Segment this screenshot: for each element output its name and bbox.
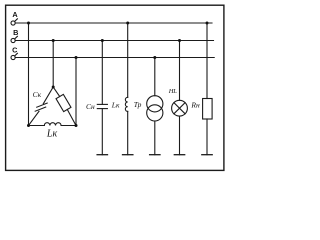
- wire lamp HL to bottom bar: [179, 116, 181, 155]
- junction dot A-x207: [206, 22, 209, 25]
- lamp HL cross stroke 2: [174, 103, 185, 114]
- junction dot C-x154.8: [153, 56, 156, 59]
- delta left side upper wire: [43, 87, 53, 104]
- delta bottom wire left: [29, 125, 45, 127]
- wire C to transformer Tr: [154, 58, 156, 96]
- wire C to delta right corner: [75, 58, 77, 126]
- svg-text:Cн: Cн: [86, 102, 95, 111]
- bottom terminal bar of Lk2 branch: [123, 154, 133, 156]
- svg-text:C: C: [12, 46, 18, 55]
- svg-text:A: A: [12, 10, 18, 19]
- svg-text:Cк: Cк: [33, 90, 42, 99]
- junction dot B-x53.2: [52, 39, 55, 42]
- wire B to capacitor Cn: [101, 41, 103, 105]
- delta bottom wire right: [61, 125, 76, 127]
- svg-text:Тр: Тр: [134, 100, 142, 109]
- resistor in delta right side: [56, 94, 71, 111]
- junction dot B-x179.5: [178, 39, 181, 42]
- junction dot delta left corner: [27, 124, 30, 127]
- terminal B tick: [15, 36, 18, 39]
- wire capacitor Cn to bottom bar: [101, 109, 103, 155]
- svg-text:HL: HL: [168, 88, 177, 95]
- bottom terminal bar of HL branch: [174, 154, 184, 156]
- junction dot B-x102.3: [101, 39, 104, 42]
- inductor Lk2 arcs: [125, 97, 127, 111]
- wire A to delta left corner: [28, 23, 30, 126]
- wire resistor Rn to bottom bar: [206, 119, 208, 155]
- capacitor Ck plate 2: [35, 107, 46, 111]
- junction dot A-x28.5: [27, 22, 30, 25]
- bottom terminal bar of Rn branch: [202, 154, 212, 156]
- wire A to inductor Lk2: [127, 23, 129, 97]
- border frame: [6, 5, 224, 170]
- lamp HL cross stroke 1: [174, 103, 185, 114]
- wire B to delta apex: [52, 41, 54, 88]
- svg-text:Rн: Rн: [190, 101, 200, 110]
- bus C wire: [15, 57, 214, 59]
- terminal C: [11, 55, 15, 59]
- terminal A tick: [15, 19, 18, 22]
- junction dot C-x76: [75, 56, 78, 59]
- bus B wire: [15, 40, 213, 42]
- svg-text:Lк: Lк: [111, 101, 120, 110]
- lamp HL circle: [172, 100, 188, 116]
- svg-text:Lк: Lк: [46, 128, 58, 139]
- capacitor Cn top plate: [97, 103, 107, 105]
- resistor Rn body: [203, 99, 213, 120]
- capacitor Ck plate 1: [37, 103, 48, 107]
- bottom terminal bar of Cn branch: [97, 154, 107, 156]
- wire inductor Lk2 to bottom bar: [127, 111, 129, 154]
- capacitor Cn bottom plate: [97, 108, 107, 110]
- terminal C tick: [15, 53, 18, 56]
- transformer Tr bottom winding: [147, 105, 163, 121]
- bus A wire: [15, 22, 212, 24]
- wire transformer Tr to bottom bar: [154, 121, 156, 155]
- wire A to resistor Rn: [206, 23, 208, 99]
- inductor Lk arcs: [44, 123, 61, 126]
- junction dot A-x127.7: [126, 22, 129, 25]
- svg-text:B: B: [13, 28, 18, 37]
- delta left side lower wire: [29, 111, 40, 125]
- terminal B: [11, 38, 15, 42]
- junction dot delta right corner: [75, 124, 78, 127]
- transformer Tr top winding: [147, 96, 163, 112]
- wire B to lamp HL: [179, 41, 181, 101]
- terminal A: [11, 21, 15, 25]
- junction dot delta apex: [52, 86, 55, 89]
- bottom terminal bar of Tr branch: [150, 154, 160, 156]
- delta right side upper wire: [53, 87, 60, 97]
- delta right side lower wire: [67, 110, 76, 126]
